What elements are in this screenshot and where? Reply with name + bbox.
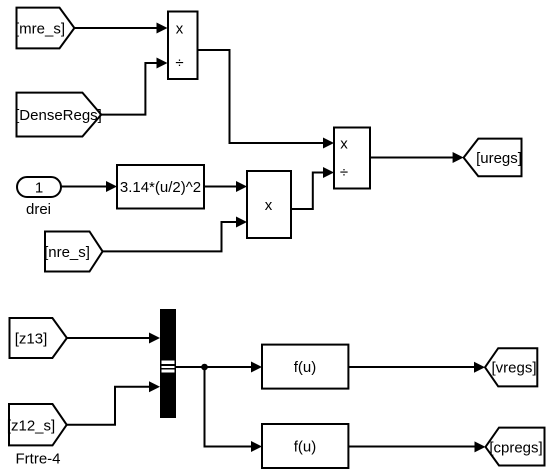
- Fcn block F2 f(u): [262, 424, 348, 468]
- wire [DenseRegs] to product P1 input 2: [101, 58, 167, 115]
- from block [nre_s]: [44, 232, 103, 272]
- svg-text:[vregs]: [vregs]: [491, 360, 536, 377]
- svg-text:[DenseRegs]: [DenseRegs]: [15, 107, 102, 124]
- from block [z12_s]: [7, 404, 67, 445]
- Fcn block F1 f(u): [262, 345, 348, 389]
- svg-text:[z13]: [z13]: [15, 331, 48, 348]
- svg-text:÷: ÷: [340, 164, 348, 181]
- svg-text:1: 1: [35, 180, 43, 197]
- svg-text:÷: ÷: [175, 55, 183, 72]
- svg-text:3.14*(u/2)^2: 3.14*(u/2)^2: [120, 179, 201, 196]
- wire drei to Fcn block: [61, 181, 117, 192]
- wire Fcn to product P2 input 1: [204, 181, 247, 192]
- svg-text:[cpregs]: [cpregs]: [489, 439, 542, 456]
- wire concat output to f(u) F1: [176, 362, 262, 373]
- product block P1 (divide x/÷): [168, 12, 198, 80]
- svg-text:x: x: [265, 197, 273, 214]
- divide block P3 (x/÷): [334, 128, 370, 189]
- svg-text:f(u): f(u): [294, 359, 317, 376]
- product block P2 (x): [247, 171, 291, 238]
- goto block [vregs]: [485, 348, 537, 386]
- wire [z12_s] to concat input 2: [67, 381, 160, 425]
- constant block drei (value 1): [17, 177, 61, 197]
- Fcn block 3.14*(u/2)^2: [117, 165, 204, 209]
- svg-text:[mre_s]: [mre_s]: [15, 21, 65, 38]
- wire product P1 output to divide P3 input 1: [198, 50, 335, 149]
- svg-text:[z12_s]: [z12_s]: [7, 417, 55, 434]
- wire F1 to goto [vregs]: [348, 362, 485, 373]
- from block [mre_s]: [15, 8, 74, 49]
- svg-text:drei: drei: [26, 201, 51, 218]
- svg-text:x: x: [176, 21, 184, 38]
- from block [DenseRegs]: [15, 93, 102, 137]
- from block [z13]: [10, 318, 67, 358]
- wire [z13] to concat input 1: [67, 333, 160, 344]
- svg-text:f(u): f(u): [294, 439, 317, 456]
- wire junction to f(u) F2: [205, 367, 263, 452]
- svg-text:[uregs]: [uregs]: [476, 150, 522, 167]
- svg-text:Frtre-4: Frtre-4: [16, 451, 61, 468]
- wire F2 to goto [cpregs]: [348, 441, 485, 452]
- wire [nre_s] to product P2 input 2: [103, 217, 247, 252]
- wire product P2 output to divide P3 input 2: [291, 167, 334, 209]
- junction node: [202, 364, 208, 370]
- wire divide P3 to goto [uregs]: [370, 152, 464, 163]
- svg-text:[nre_s]: [nre_s]: [44, 244, 90, 261]
- goto block [uregs]: [464, 139, 522, 177]
- goto block [cpregs]: [486, 428, 545, 466]
- svg-text:x: x: [340, 136, 348, 153]
- wire [mre_s] to product P1 input 1: [74, 23, 167, 34]
- concatenate block (black bar): [160, 309, 176, 418]
